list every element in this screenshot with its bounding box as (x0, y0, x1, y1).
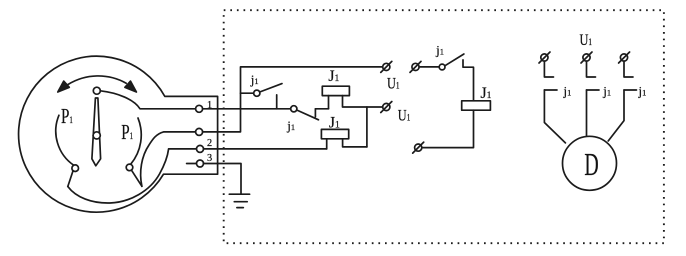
svg-text:j1: j1 (638, 83, 647, 98)
svg-text:U1: U1 (398, 107, 411, 125)
svg-text:2: 2 (207, 138, 212, 149)
svg-text:j1: j1 (602, 83, 611, 98)
svg-text:D: D (584, 147, 598, 182)
svg-text:j1: j1 (563, 83, 572, 98)
svg-text:1: 1 (207, 100, 212, 111)
svg-text:J1: J1 (328, 68, 339, 85)
svg-text:j1: j1 (250, 72, 259, 87)
svg-text:P1: P1 (61, 104, 73, 127)
svg-text:J1: J1 (481, 85, 492, 102)
svg-text:U1: U1 (387, 75, 400, 93)
svg-text:U1: U1 (580, 32, 593, 50)
svg-text:P1: P1 (121, 120, 133, 143)
svg-text:j1: j1 (286, 118, 295, 133)
svg-text:J1: J1 (329, 114, 340, 131)
svg-text:j1: j1 (435, 43, 444, 58)
svg-text:3: 3 (207, 153, 212, 164)
